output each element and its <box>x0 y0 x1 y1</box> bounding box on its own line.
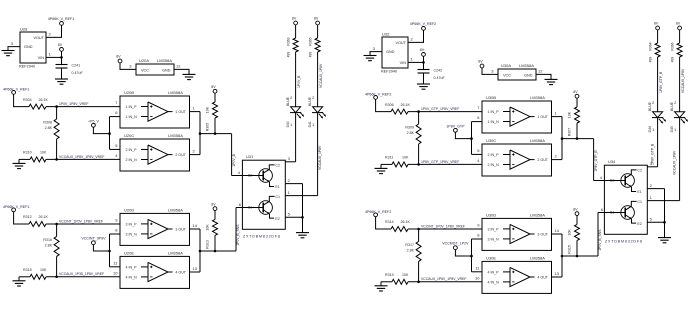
node +P5_V (reference tap) <box>88 119 99 127</box>
wire net VCCINT_1P0V_1P8V_VREF <box>408 224 482 230</box>
ground (divider bottom) <box>375 282 388 291</box>
resistor R316 2.8K (divider) <box>43 224 59 277</box>
wire LED cathode down <box>650 118 657 167</box>
wire GND pin3 <box>8 47 20 51</box>
svg-text:26.1K: 26.1K <box>39 215 49 219</box>
svg-text:VCCAUX_1P8V_1P8V_VREF: VCCAUX_1P8V_1P8V_VREF <box>59 155 104 159</box>
wire net 1P0V_B_SNS to transistor base <box>236 202 243 251</box>
svg-text:3 IN_P: 3 IN_P <box>126 222 138 226</box>
resistor R308 2.8K (divider) <box>43 107 59 160</box>
resistor R310 10K <box>19 151 47 162</box>
wire GND pin to ground <box>536 74 551 79</box>
svg-text:8V: 8V <box>654 22 659 26</box>
svg-text:1P8V_GTP_B: 1P8V_GTP_B <box>659 71 663 93</box>
wire net 1P0V_1P8V_VREF <box>46 102 120 108</box>
pin 2 wire (E1 out) <box>647 183 664 189</box>
wire tap to inputs <box>93 117 120 150</box>
svg-text:8V: 8V <box>573 90 578 94</box>
svg-text:1 OUT: 1 OUT <box>175 110 186 114</box>
wire 8V to VCC <box>120 63 136 70</box>
svg-text:U30A: U30A <box>501 63 511 68</box>
svg-text:U20B: U20B <box>124 90 134 95</box>
svg-text:LM358A: LM358A <box>530 212 545 217</box>
power 8V (LED chain) <box>654 22 660 30</box>
svg-text:1P0V_1P8V_VREF: 1P0V_1P8V_VREF <box>59 102 88 106</box>
svg-text:2 OUT: 2 OUT <box>175 153 186 157</box>
svg-text:BLUE: BLUE <box>286 96 290 106</box>
svg-text:U20E: U20E <box>124 250 134 255</box>
capacitor C241 0.47uF <box>56 63 84 79</box>
ground (capacitor) <box>417 84 430 89</box>
LED D40 blue <box>286 96 304 127</box>
node 1P8V_GTP (reference tap) <box>446 124 465 132</box>
node 4P66K_V_REF1 (feed) <box>3 205 29 212</box>
svg-text:VCCAUX_1P8V: VCCAUX_1P8V <box>672 150 676 175</box>
wire net 1P0V_B_SNS to transistor base <box>598 207 605 256</box>
wire emitters to ground <box>301 184 304 233</box>
svg-text:E2: E2 <box>275 217 279 221</box>
op-amp U20C LM358A <box>115 133 195 171</box>
power 8V (block supply) <box>116 55 122 63</box>
svg-text:VCC: VCC <box>503 74 511 78</box>
node VCCMGT_1P2V (reference tap) <box>442 242 469 250</box>
svg-text:LM358A: LM358A <box>530 138 545 143</box>
svg-text:1P0V_GTP_1P8V_VREF: 1P0V_GTP_1P8V_VREF <box>421 107 459 111</box>
svg-text:1P8V_GTP_B: 1P8V_GTP_B <box>650 143 654 165</box>
resistor R366 499 <box>670 30 682 62</box>
pin 5 wire (E2 out) <box>285 212 302 218</box>
svg-text:VCCAUX_1P8V_1P8V_VREF: VCCAUX_1P8V_1P8V_VREF <box>421 277 466 281</box>
wire net 1P8V_GTP_1P8V_VREF <box>408 160 482 166</box>
svg-text:R363: R363 <box>286 37 290 45</box>
svg-text:E1: E1 <box>637 190 641 194</box>
svg-text:R305: R305 <box>206 123 210 132</box>
svg-text:1 OUT: 1 OUT <box>537 115 548 119</box>
svg-text:C1: C1 <box>275 195 280 199</box>
svg-text:R366: R366 <box>670 42 674 50</box>
svg-text:U20D: U20D <box>124 207 134 212</box>
wire node to resistor <box>14 94 29 106</box>
wire node to resistor <box>376 217 391 229</box>
power pins block U30A LM358A <box>491 63 543 80</box>
wire net VCCAUX_1P8V <box>312 52 323 107</box>
svg-text:2.8K: 2.8K <box>45 243 53 247</box>
node 4P66K_V_REF1 (top) <box>48 17 74 26</box>
LED D41 blue <box>308 96 326 127</box>
svg-text:2.8K: 2.8K <box>45 126 53 130</box>
svg-text:8V: 8V <box>314 17 319 21</box>
svg-text:1P0V_B: 1P0V_B <box>297 75 301 88</box>
svg-text:U32: U32 <box>382 31 390 36</box>
svg-text:10: 10 <box>475 275 480 280</box>
voltage regulator U32 <box>373 31 414 73</box>
pin 3 wire (C2 out) <box>285 156 295 162</box>
svg-text:2 IN_P: 2 IN_P <box>126 148 138 152</box>
svg-text:4P66K_V_REF1: 4P66K_V_REF1 <box>48 17 74 21</box>
svg-text:R306: R306 <box>385 103 394 107</box>
wire emitters to ground <box>663 189 666 238</box>
svg-text:R318: R318 <box>23 268 32 272</box>
op-amp U20B LM358A <box>115 90 195 128</box>
svg-text:2 IN_N: 2 IN_N <box>126 158 138 162</box>
svg-text:VCCINT_1P0V_1P8V_VREF: VCCINT_1P0V_1P8V_VREF <box>59 219 103 223</box>
ground (power block) <box>183 74 196 79</box>
svg-text:4P66K_V_REF2: 4P66K_V_REF2 <box>365 210 391 214</box>
wire VOUT pin2 to node <box>46 25 62 37</box>
svg-text:LM358A: LM358A <box>168 250 183 255</box>
svg-text:C242: C242 <box>434 68 443 72</box>
pin 2 wire (E1 out) <box>285 178 302 184</box>
svg-text:ZXTDBM832DF8: ZXTDBM832DF8 <box>605 240 643 244</box>
svg-text:1 IN_P: 1 IN_P <box>126 105 138 109</box>
svg-text:13: 13 <box>193 266 198 271</box>
wire outputs paralleled <box>552 234 599 277</box>
svg-text:10: 10 <box>113 270 118 275</box>
wire outputs paralleled <box>552 117 594 160</box>
svg-text:REF2940: REF2940 <box>19 65 35 69</box>
svg-text:U30C: U30C <box>486 138 496 143</box>
wire net 1P0V_B to transistor base <box>232 134 243 176</box>
ground (emitters) <box>658 238 671 243</box>
resistor R319 10K <box>381 273 409 284</box>
svg-text:12: 12 <box>538 69 543 74</box>
wire net VCCAUX_1P8V_1P8V_VREF <box>46 155 120 161</box>
resistor R314 26.1K <box>385 220 410 231</box>
transistor Q_a (upper) <box>242 164 280 190</box>
svg-text:1P0V_B: 1P0V_B <box>232 153 236 166</box>
power 8V (regulator input) <box>420 48 426 56</box>
svg-text:LM358A: LM358A <box>168 207 183 212</box>
svg-text:1 IN_N: 1 IN_N <box>126 115 138 119</box>
dual NPN transistor U34 ZXTDBM832DF8 <box>604 159 647 243</box>
svg-text:U30D: U30D <box>486 212 496 217</box>
op-amp U30B LM358A <box>477 95 557 133</box>
svg-text:8V: 8V <box>211 202 216 206</box>
node 4P66K_V_REF2 (top) <box>410 22 436 31</box>
svg-text:10K: 10K <box>206 224 210 231</box>
svg-text:R313: R313 <box>206 240 210 249</box>
wire net VCCINT_1P0V_1P8V_VREF <box>46 219 120 225</box>
svg-text:4P66K_V_REF1: 4P66K_V_REF1 <box>3 87 29 91</box>
svg-text:499: 499 <box>286 52 290 58</box>
node VCCINT_0P9V (reference tap) <box>81 237 106 245</box>
svg-text:VCCINT_1P0V_1P8V_VREF: VCCINT_1P0V_1P8V_VREF <box>421 224 465 228</box>
svg-text:R304: R304 <box>23 98 32 102</box>
wire node to resistor <box>14 212 29 224</box>
svg-text:U28: U28 <box>20 26 28 31</box>
svg-text:B2: B2 <box>248 174 252 178</box>
transistor Q_a (upper) <box>604 169 642 195</box>
svg-text:R314: R314 <box>385 220 394 224</box>
resistor R311 10K <box>381 156 409 167</box>
svg-text:4 IN_N: 4 IN_N <box>488 280 500 284</box>
transistor Q_b (lower) <box>604 200 642 226</box>
ground (power block) <box>545 79 558 84</box>
wire tap to inputs <box>455 122 482 155</box>
svg-text:U30E: U30E <box>486 255 496 260</box>
ground (capacitor) <box>55 79 68 84</box>
svg-text:1P8V_GTP_1P8V_VREF: 1P8V_GTP_1P8V_VREF <box>421 160 459 164</box>
svg-text:C241: C241 <box>72 63 81 67</box>
wire 8V to VCC <box>482 68 498 75</box>
svg-text:R310: R310 <box>23 151 32 155</box>
svg-text:C2: C2 <box>275 164 280 168</box>
svg-text:1P0V_B_SNS: 1P0V_B_SNS <box>236 224 240 246</box>
svg-text:10K: 10K <box>402 273 409 277</box>
svg-text:VCCINT_0P9V: VCCINT_0P9V <box>81 237 106 241</box>
svg-text:R315: R315 <box>568 245 572 254</box>
svg-text:R308: R308 <box>43 120 52 124</box>
svg-text:2 OUT: 2 OUT <box>537 158 548 162</box>
svg-text:8V: 8V <box>58 43 63 47</box>
svg-text:14: 14 <box>193 223 198 228</box>
svg-text:VCCMGT_1P2V: VCCMGT_1P2V <box>442 242 469 246</box>
svg-text:0.47uF: 0.47uF <box>72 71 84 75</box>
svg-text:3 IN_P: 3 IN_P <box>488 227 500 231</box>
svg-text:8V: 8V <box>478 60 483 64</box>
svg-text:0.47uF: 0.47uF <box>434 76 446 80</box>
svg-text:10K: 10K <box>402 156 409 160</box>
svg-text:8V: 8V <box>573 207 578 211</box>
ground (divider bottom) <box>13 159 26 168</box>
node 4P66K_V_REF2 (feed) <box>365 92 391 99</box>
svg-text:8V: 8V <box>211 85 216 89</box>
wire tap to inputs <box>93 234 120 267</box>
svg-text:10K: 10K <box>568 111 572 118</box>
resistor R307 10K pull-up <box>568 90 580 139</box>
pin 5 wire (E2 out) <box>647 217 664 223</box>
resistor R306 26.1K <box>385 103 410 114</box>
wire VIN pin1 junction <box>46 51 63 64</box>
svg-text:GND: GND <box>162 69 171 73</box>
svg-text:1 IN_N: 1 IN_N <box>488 120 500 124</box>
svg-text:REF2940: REF2940 <box>381 70 397 74</box>
svg-text:U20C: U20C <box>124 133 134 138</box>
svg-text:U34: U34 <box>608 159 616 164</box>
svg-text:4 IN_N: 4 IN_N <box>126 275 138 279</box>
svg-text:LM358A: LM358A <box>168 133 183 138</box>
wire outputs paralleled <box>190 229 237 272</box>
svg-text:1P8V_GTP: 1P8V_GTP <box>446 124 465 128</box>
svg-text:VCCAUX_1P35_1P8V_VREF: VCCAUX_1P35_1P8V_VREF <box>59 272 104 276</box>
svg-text:GND: GND <box>386 50 395 54</box>
svg-text:R312: R312 <box>23 215 32 219</box>
svg-text:R309: R309 <box>405 125 414 129</box>
ground (regulator) <box>2 51 15 56</box>
pin 1 wire (C1 out) <box>647 195 679 201</box>
svg-text:4P66K_V_REF2: 4P66K_V_REF2 <box>410 22 436 26</box>
svg-text:B1: B1 <box>610 211 614 215</box>
wire GND pin to ground <box>174 69 189 74</box>
svg-text:2 IN_N: 2 IN_N <box>488 163 500 167</box>
wire net 1P0V_GTP_1P8V_VREF <box>408 107 482 113</box>
power pins block U20A LM358A <box>129 58 181 75</box>
svg-text:10K: 10K <box>206 106 210 113</box>
wire net 1P8V_GTP_B <box>652 57 663 112</box>
dual NPN transistor U31 ZXTDBM832DF8 <box>242 154 285 238</box>
wire tap to inputs <box>455 239 482 272</box>
resistor R364 499 <box>648 30 660 62</box>
svg-text:LM358A: LM358A <box>530 255 545 260</box>
resistor R304 26.1K <box>23 98 48 109</box>
svg-text:U30B: U30B <box>486 95 496 100</box>
svg-text:VCCAUX_1P8V: VCCAUX_1P8V <box>318 145 322 170</box>
svg-text:499: 499 <box>670 57 674 63</box>
svg-text:VOUT: VOUT <box>33 36 44 40</box>
wire VIN pin1 junction <box>408 56 425 69</box>
op-amp U30C LM358A <box>477 138 557 176</box>
svg-text:VCC: VCC <box>141 69 149 73</box>
resistor R363 499 <box>286 25 298 57</box>
pin 1 wire (C1 out) <box>285 190 317 196</box>
svg-text:8V: 8V <box>116 55 121 59</box>
resistor R305 10K pull-up <box>206 85 218 134</box>
svg-text:B2: B2 <box>610 179 614 183</box>
svg-text:R311: R311 <box>385 156 393 160</box>
capacitor C242 0.47uF <box>418 68 446 84</box>
svg-text:3 OUT: 3 OUT <box>175 227 186 231</box>
svg-text:3 OUT: 3 OUT <box>537 232 548 236</box>
resistor R317 2.8K (divider) <box>405 229 421 282</box>
svg-text:R317: R317 <box>405 243 414 247</box>
resistor R365 499 <box>308 25 320 57</box>
svg-text:R316: R316 <box>43 238 52 242</box>
op-amp U30D LM358A <box>477 212 559 250</box>
svg-text:4 IN_P: 4 IN_P <box>488 270 500 274</box>
ground (divider bottom) <box>375 164 388 173</box>
svg-text:R364: R364 <box>648 42 652 50</box>
resistor R309 2.8K (divider) <box>405 112 421 165</box>
svg-text:VOUT: VOUT <box>395 41 406 45</box>
svg-text:8V: 8V <box>676 22 681 26</box>
svg-text:C2: C2 <box>637 169 642 173</box>
svg-text:10K: 10K <box>40 151 47 155</box>
svg-text:LM358A: LM358A <box>157 58 172 63</box>
power 8V (LED chain) <box>292 17 298 25</box>
svg-text:VCCAUX_1P8V: VCCAUX_1P8V <box>681 68 685 93</box>
transistor Q_b (lower) <box>242 195 280 221</box>
op-amp U20E LM358A <box>113 250 198 288</box>
svg-text:2.8K: 2.8K <box>407 248 415 252</box>
wire net 1P0V_B <box>290 52 301 107</box>
op-amp U30E LM358A <box>475 255 560 293</box>
node 4P66K_V_REF2 (feed) <box>365 210 391 217</box>
ground (emitters) <box>296 233 309 238</box>
resistor R315 10K pull-up <box>568 207 580 256</box>
wire outputs paralleled <box>190 112 232 155</box>
svg-text:4 IN_P: 4 IN_P <box>126 265 138 269</box>
power 8V (LED chain) <box>676 22 682 30</box>
resistor R318 10K <box>19 268 47 279</box>
svg-text:10K: 10K <box>40 268 47 272</box>
wire LED cathode down <box>318 113 322 196</box>
wire net VCCAUX_1P35_1P8V_VREF <box>46 272 120 278</box>
svg-text:2 IN_P: 2 IN_P <box>488 153 500 157</box>
wire net VCCAUX_1P8V <box>674 57 685 112</box>
svg-text:4 OUT: 4 OUT <box>175 270 186 274</box>
svg-text:BLUE: BLUE <box>648 101 652 111</box>
svg-text:499: 499 <box>648 57 652 63</box>
wire node to resistor <box>376 99 391 111</box>
svg-text:2.8K: 2.8K <box>407 131 415 135</box>
svg-text:BLUE: BLUE <box>670 101 674 111</box>
LED D44 blue <box>648 101 666 132</box>
svg-text:VIN: VIN <box>400 61 407 65</box>
svg-text:499: 499 <box>308 52 312 58</box>
wire VOUT pin2 to node <box>408 30 424 42</box>
wire LED cathode down <box>295 113 297 162</box>
svg-text:4P66K_V_REF1: 4P66K_V_REF1 <box>3 205 29 209</box>
svg-text:10K: 10K <box>568 229 572 236</box>
svg-text:U31: U31 <box>246 154 254 159</box>
svg-text:26.1K: 26.1K <box>39 98 49 102</box>
svg-text:12: 12 <box>176 64 181 69</box>
svg-text:8V: 8V <box>420 48 425 52</box>
svg-text:B1: B1 <box>248 206 252 210</box>
svg-text:13: 13 <box>555 271 560 276</box>
power 8V (regulator input) <box>58 43 64 51</box>
wire net VCCAUX_1P8V_1P8V_VREF <box>408 277 482 283</box>
svg-text:3 IN_N: 3 IN_N <box>488 237 500 241</box>
svg-text:GND: GND <box>524 74 533 78</box>
svg-text:R307: R307 <box>568 128 572 137</box>
svg-text:3 IN_N: 3 IN_N <box>126 232 138 236</box>
svg-text:R365: R365 <box>308 37 312 45</box>
svg-text:GND: GND <box>24 45 33 49</box>
svg-text:8V: 8V <box>292 17 297 21</box>
svg-text:26.1K: 26.1K <box>401 220 411 224</box>
ground (regulator) <box>364 56 377 61</box>
resistor R312 26.1K <box>23 215 48 226</box>
wire net 1P8V_GTP_B to transistor base <box>594 139 605 181</box>
LED D45 blue <box>670 101 688 132</box>
svg-text:4P66K_V_REF2: 4P66K_V_REF2 <box>365 92 391 96</box>
power 8V (LED chain) <box>314 17 320 25</box>
svg-text:ZXTDBM832DF8: ZXTDBM832DF8 <box>243 235 281 239</box>
svg-text:LM358A: LM358A <box>519 63 534 68</box>
node 4P66K_V_REF1 (feed) <box>3 87 29 94</box>
svg-text:BLUE: BLUE <box>308 96 312 106</box>
svg-text:LM358A: LM358A <box>530 95 545 100</box>
svg-text:E2: E2 <box>637 222 641 226</box>
op-amp U20D LM358A <box>115 207 197 245</box>
wire LED cathode down <box>672 118 679 201</box>
svg-text:U20A: U20A <box>139 58 149 63</box>
svg-text:1 IN_P: 1 IN_P <box>488 110 500 114</box>
pin 3 wire (C2 out) <box>647 161 657 167</box>
svg-text:4 OUT: 4 OUT <box>537 275 548 279</box>
svg-text:C1: C1 <box>637 200 642 204</box>
svg-text:VCCAUX_1P8V: VCCAUX_1P8V <box>319 63 323 88</box>
svg-text:1P8V_GTP_B: 1P8V_GTP_B <box>594 150 598 172</box>
svg-text:LM358A: LM358A <box>168 90 183 95</box>
svg-text:VIN: VIN <box>38 56 45 60</box>
svg-text:E1: E1 <box>275 185 279 189</box>
power 8V (block supply) <box>478 60 484 68</box>
wire GND pin3 <box>370 52 382 56</box>
svg-text:26.1K: 26.1K <box>401 103 411 107</box>
resistor R313 10K pull-up <box>206 202 218 251</box>
svg-text:1P0V_B_SNS: 1P0V_B_SNS <box>598 229 602 251</box>
svg-text:+P5_V: +P5_V <box>88 119 99 123</box>
ground (divider bottom) <box>13 277 26 286</box>
svg-text:R319: R319 <box>385 273 394 277</box>
voltage regulator U28 <box>11 26 52 68</box>
svg-text:14: 14 <box>555 228 560 233</box>
